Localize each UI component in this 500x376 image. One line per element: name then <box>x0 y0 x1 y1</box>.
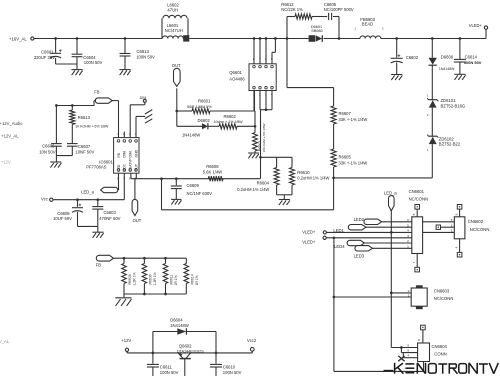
wire feed to R6607 divider <box>286 39 288 88</box>
svg-text:NC/CONN: NC/CONN <box>409 197 429 202</box>
svg-text:AO4486: AO4486 <box>229 76 245 81</box>
IC LED pin wire <box>118 173 120 190</box>
capacitor C6614 <box>459 37 462 40</box>
svg-text:1.2R 1%: 1.2R 1% <box>133 272 137 285</box>
wire FB net to divider <box>94 100 96 102</box>
CN6602 pin2 wire and pad <box>441 226 455 228</box>
svg-text:R6611: R6611 <box>170 275 174 285</box>
wire LED_a vertical <box>390 210 392 348</box>
capacitor C6601 <box>54 37 57 40</box>
svg-text:0.2oHM 1% 1/4W: 0.2oHM 1% 1/4W <box>297 175 329 180</box>
svg-text:DIM: DIM <box>129 151 133 157</box>
svg-text:VLED+: VLED+ <box>469 23 483 28</box>
svg-text:1: 1 <box>408 294 410 298</box>
svg-text:47UH: 47UH <box>167 7 178 12</box>
connector CN6604 <box>418 343 430 362</box>
svg-text:+12V_AL: +12V_AL <box>1 134 19 139</box>
svg-text:BZT52-B16G: BZT52-B16G <box>441 103 466 108</box>
CN6602 pin 4 pad <box>459 239 461 253</box>
svg-text:5.6K 1/4W: 5.6K 1/4W <box>203 169 223 174</box>
svg-text:C6606: C6606 <box>42 144 55 149</box>
svg-text:VCC: VCC <box>123 164 127 172</box>
svg-text:4: 4 <box>454 246 458 248</box>
svg-text:FB: FB <box>96 262 102 267</box>
svg-text:10N 50V: 10N 50V <box>39 149 56 154</box>
svg-text:VLED+: VLED+ <box>302 240 316 245</box>
wire FB bank top <box>114 257 187 259</box>
svg-text:C6602: C6602 <box>406 55 419 60</box>
svg-text:R6605: R6605 <box>339 155 352 160</box>
wire caps common to ground <box>56 155 72 157</box>
svg-text:SB580: SB580 <box>311 29 322 33</box>
svg-text:5: 5 <box>407 223 409 227</box>
ground under R6603 <box>254 151 256 153</box>
svg-text:NC/100PF 500V: NC/100PF 500V <box>324 7 354 12</box>
ground under C6613 <box>119 69 130 71</box>
svg-text:LED: LED <box>117 164 121 171</box>
resistor R6606 <box>143 258 145 263</box>
resistor R6608 <box>208 176 223 181</box>
ground under C6606/C6607 <box>50 161 61 163</box>
diode D6602 speedup row <box>177 125 202 127</box>
CN6602 pin 5 pad <box>459 209 461 217</box>
svg-text:CONN: CONN <box>434 352 446 357</box>
svg-text:BEAD: BEAD <box>362 21 373 26</box>
svg-text:R6613: R6613 <box>78 115 91 120</box>
ground under C6614 <box>454 73 465 75</box>
svg-text:R6603: R6603 <box>258 141 262 151</box>
node VLED+ top terminal <box>484 26 487 29</box>
svg-text:DIM: DIM <box>123 151 127 157</box>
svg-text:OUT: OUT <box>133 218 142 223</box>
CN6604 pin 6 wire <box>391 347 417 349</box>
resistor R6602 <box>208 125 219 127</box>
svg-text:33K +-1% 1/4W: 33K +-1% 1/4W <box>339 161 368 166</box>
capacitor C6604 <box>76 37 79 40</box>
svg-text:GND: GND <box>134 149 138 157</box>
IC CS/OVP + OUT pins to sense line <box>130 173 132 179</box>
capacitor C6607 <box>67 143 78 145</box>
svg-text:100N 50V: 100N 50V <box>223 370 242 375</box>
svg-text:Vcc: Vcc <box>41 196 48 201</box>
CN6603 pin 2 wire <box>391 292 411 294</box>
svg-text:C6613: C6613 <box>137 49 150 54</box>
svg-text:3: 3 <box>407 234 409 238</box>
svg-text:+12V: +12V <box>1 159 11 164</box>
snubber R6612 <box>286 37 289 40</box>
inductor L6601 on rail <box>163 36 184 39</box>
test point FB lower <box>96 255 113 261</box>
svg-text:NC/1NF 630V: NC/1NF 630V <box>187 191 213 196</box>
svg-text:56R 1/8W 5%: 56R 1/8W 5% <box>187 104 212 109</box>
wire main +16V rail <box>34 38 162 40</box>
CN6603 pin 1 wire <box>334 296 411 298</box>
svg-text:470NF 50V: 470NF 50V <box>99 216 120 221</box>
svg-text:2: 2 <box>408 289 410 293</box>
svg-text:DTA144E0(3(2S: DTA144E0(3(2S <box>177 349 204 353</box>
svg-text:5: 5 <box>454 213 458 215</box>
svg-text:C6603: C6603 <box>104 210 117 215</box>
svg-text:1R 1%: 1R 1% <box>195 275 199 285</box>
svg-text:CN6604: CN6604 <box>432 344 448 349</box>
resistor R6604 current sense <box>276 157 278 167</box>
svg-text:+12V_Audio: +12V_Audio <box>0 121 23 126</box>
svg-text:OUT: OUT <box>172 63 181 68</box>
resistor R6601 gate row <box>175 110 178 113</box>
svg-text:6: 6 <box>407 343 409 347</box>
svg-text:2: 2 <box>407 239 409 243</box>
svg-text:330UF 35V: 330UF 35V <box>34 55 55 60</box>
svg-text:1R 1%: 1R 1% <box>174 275 178 285</box>
connector CN6602 <box>454 217 465 239</box>
svg-text:10UF 50V: 10UF 50V <box>53 216 72 221</box>
wire Q6601 pin5 jog <box>271 52 273 64</box>
svg-text:1N4148W: 1N4148W <box>182 133 200 138</box>
wire FB bank bottom <box>124 293 186 295</box>
capacitor C6602 <box>395 37 398 40</box>
svg-text:1N4148W: 1N4148W <box>170 323 189 328</box>
svg-text:100N 50V: 100N 50V <box>160 370 179 375</box>
resistor R6610 current sense <box>291 157 293 167</box>
svg-text:100N 50V: 100N 50V <box>464 60 482 65</box>
svg-text:100N 50V: 100N 50V <box>84 60 103 65</box>
svg-text:D6602: D6602 <box>198 118 211 123</box>
svg-text:0.2oHM 1% 1/4W: 0.2oHM 1% 1/4W <box>237 187 269 192</box>
svg-text:C6601: C6601 <box>41 49 54 54</box>
svg-text:NC/22K 1%: NC/22K 1% <box>281 7 303 12</box>
CN6604 pin 7 return wire <box>423 362 425 372</box>
diode D6604 branch <box>152 352 155 355</box>
wires Q6601 source pins bus <box>259 91 261 110</box>
svg-text:CN6603: CN6603 <box>434 288 450 293</box>
svg-text:Vcc2: Vcc2 <box>247 338 257 343</box>
svg-text:R6614: R6614 <box>190 274 194 284</box>
svg-text:R6609: R6609 <box>128 274 132 284</box>
wires Q6601 drain pins to rail <box>253 39 255 64</box>
wire sense resistor feed <box>261 156 293 158</box>
resistor R6607 <box>333 88 335 106</box>
svg-text:7: 7 <box>412 261 416 263</box>
svg-text:LED4: LED4 <box>334 244 345 249</box>
IC GND pin to chassis ground <box>135 116 137 137</box>
svg-text:6: 6 <box>407 218 409 222</box>
resistor R6605 <box>333 124 335 149</box>
wires CN6601 to CN6602 <box>423 221 455 223</box>
IC DIM pin stub <box>123 132 125 138</box>
wire +12V to Vcc2 <box>127 352 252 354</box>
svg-text:R6601: R6601 <box>198 99 211 104</box>
capacitor C6608 <box>76 198 79 201</box>
capacitor C6613 <box>124 37 127 40</box>
IC U6601 PF7708AS controller <box>114 138 139 174</box>
wire OUT flag to gate rows rail <box>176 88 178 126</box>
connector CN6601 <box>412 217 423 254</box>
wire Q6601 gate pin1 down <box>253 91 255 112</box>
wire sense resistor commons <box>277 194 292 196</box>
wire sense loop <box>160 177 163 180</box>
svg-text:R6607: R6607 <box>339 111 352 116</box>
svg-text:PF7708AS: PF7708AS <box>86 165 106 170</box>
svg-text:1.2R 1%: 1.2R 1% <box>153 272 157 285</box>
svg-text:LED3: LED3 <box>354 254 365 259</box>
svg-text:4: 4 <box>407 229 409 233</box>
resistor R6613 <box>71 104 74 107</box>
capacitor C6603 <box>96 198 99 201</box>
svg-text:C6608: C6608 <box>57 211 70 216</box>
svg-text:LED_a: LED_a <box>81 190 94 195</box>
svg-text:R6604: R6604 <box>257 181 270 186</box>
svg-text:8: 8 <box>412 213 416 215</box>
svg-text:1N4148W: 1N4148W <box>439 67 455 71</box>
snubber capacitor C6605 <box>328 13 330 20</box>
svg-text:+16V_AL: +16V_AL <box>0 339 10 344</box>
svg-text:1K KOHM +-5% 1/8W: 1K KOHM +-5% 1/8W <box>75 124 109 128</box>
svg-text:C6609: C6609 <box>187 183 200 188</box>
svg-text:1: 1 <box>407 244 409 248</box>
capacitor C6610 <box>215 353 217 364</box>
svg-text:Q6602: Q6602 <box>179 344 192 349</box>
inductor L6602 (parallel branch) <box>161 18 163 38</box>
svg-text:LED2: LED2 <box>354 217 365 222</box>
svg-text:NC/CONN: NC/CONN <box>470 227 490 232</box>
capacitor C6611 <box>152 353 154 364</box>
wire cap commons <box>78 225 98 227</box>
ground under C6609 <box>171 198 181 200</box>
svg-text:FB: FB <box>94 89 100 94</box>
svg-text:FB: FB <box>117 152 121 157</box>
capacitor C6609 <box>175 177 178 180</box>
svg-text:C6610: C6610 <box>223 365 236 370</box>
svg-text:3: 3 <box>451 218 453 222</box>
ground under C6602 <box>391 74 402 76</box>
svg-text:VLED+: VLED+ <box>302 230 316 235</box>
svg-text:1: 1 <box>451 229 453 233</box>
svg-text:CN6602: CN6602 <box>468 219 484 224</box>
watermark KENOTRONTV <box>384 363 499 374</box>
zener ZD6102 BZT52-B22 <box>429 135 438 137</box>
svg-text:OUT: OUT <box>134 163 138 171</box>
wire Vcc rail <box>53 199 124 201</box>
wire OUT drive line <box>131 178 260 180</box>
ground under FB bank <box>123 294 125 297</box>
CN6604 pin 4 wire with no-connect X <box>402 353 404 358</box>
ground under C6603 <box>92 231 103 233</box>
wire source bus down <box>260 110 262 179</box>
svg-text:+16V_AL: +16V_AL <box>9 36 27 41</box>
resistor R6611 <box>165 258 167 263</box>
wire FB flag to FB pin <box>112 100 118 102</box>
svg-text:+12V: +12V <box>121 338 131 343</box>
test point OUT lower <box>134 179 136 200</box>
svg-text:NC/47UH: NC/47UH <box>165 28 183 33</box>
resistor R6614 <box>185 258 187 263</box>
ferrite bead FB6903 <box>360 36 381 39</box>
CN6604 pin 8 pad <box>422 330 424 343</box>
wire LED pin wires to CN6601 <box>382 221 412 223</box>
svg-text:BZT52-B22: BZT52-B22 <box>439 142 461 147</box>
ground under sense resistors <box>279 199 290 201</box>
diode D6601 SB580 <box>309 35 315 42</box>
svg-text:Q6601: Q6601 <box>229 70 242 75</box>
svg-text:2: 2 <box>451 223 453 227</box>
svg-text:D6606: D6606 <box>441 55 454 60</box>
CN6601 pin 8 pad <box>416 209 418 217</box>
svg-text:R6602: R6602 <box>224 114 237 119</box>
svg-text:10NF 50V: 10NF 50V <box>75 149 94 154</box>
capacitor C6606 <box>55 104 58 107</box>
svg-text:4: 4 <box>407 354 409 358</box>
svg-text:CS/OVP: CS/OVP <box>129 158 133 172</box>
diode D6606 <box>431 37 434 40</box>
svg-text:5: 5 <box>407 348 409 352</box>
svg-text:LED1: LED1 <box>333 228 344 233</box>
transistor Q6601 AO4486 (sync FET) <box>249 64 276 91</box>
resistor R6609 <box>123 258 125 263</box>
CN6604 pin 5 wire <box>400 348 402 353</box>
svg-text:10ohm +-1% 1/8W: 10ohm +-1% 1/8W <box>214 120 244 124</box>
svg-text:NC/CONN: NC/CONN <box>434 296 454 301</box>
ground under C6604 <box>71 69 82 71</box>
svg-text:10K OHM +-5% 1/8W: 10K OHM +-5% 1/8W <box>262 123 266 152</box>
ferrite slug on L6601 <box>183 35 189 41</box>
svg-text:C6611: C6611 <box>160 365 173 370</box>
svg-text:C6614: C6614 <box>465 55 478 60</box>
wire zener return <box>334 177 433 179</box>
svg-text:R6606: R6606 <box>149 274 153 284</box>
svg-text:C6607: C6607 <box>78 144 91 149</box>
CN6601 pin 7 pad <box>416 254 418 268</box>
wire LED4 net down <box>333 236 336 239</box>
svg-text:LED_a: LED_a <box>384 191 397 196</box>
IC VCC pin wire <box>123 173 125 200</box>
svg-text:33K +-1% 1/4W: 33K +-1% 1/4W <box>339 117 368 122</box>
svg-text:100N 50V: 100N 50V <box>136 55 155 60</box>
connector CN6603 <box>411 288 427 306</box>
wire gate node vertical <box>254 91 256 112</box>
svg-text:8: 8 <box>417 339 421 341</box>
svg-text:CN6601: CN6601 <box>409 189 425 194</box>
resistor R6603 gate pulldown <box>253 133 258 152</box>
